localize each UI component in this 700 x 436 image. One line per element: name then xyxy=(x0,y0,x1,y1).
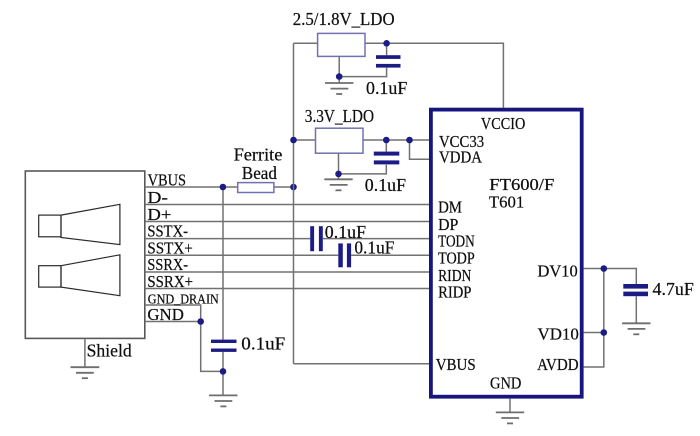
regulator U2 2.5/1.8V LDO body xyxy=(318,33,365,56)
wire rail to IC VBUS pin xyxy=(294,363,431,365)
IC U1 FT600/FT601 body xyxy=(431,110,582,397)
svg-text:GND: GND xyxy=(147,305,184,324)
wire D+ xyxy=(145,221,430,223)
junction VD10 xyxy=(601,329,608,336)
svg-text:AVDD: AVDD xyxy=(537,355,579,374)
ground LDO2 xyxy=(324,179,352,190)
wire C3 bottom xyxy=(635,296,637,323)
svg-text:VBUS: VBUS xyxy=(148,170,186,189)
junction VDDA branch xyxy=(406,137,413,144)
svg-text:2.5/1.8V_LDO: 2.5/1.8V_LDO xyxy=(293,9,395,29)
junction C1 top xyxy=(383,40,390,47)
regulator U3 3.3V LDO body xyxy=(316,128,364,153)
wire SSTX- right segment to TODN xyxy=(323,238,430,240)
svg-text:0.1uF: 0.1uF xyxy=(354,238,394,258)
wire SSRX- xyxy=(145,271,430,273)
wire D- xyxy=(145,204,430,206)
junction C2 top xyxy=(383,137,390,144)
wire VBUS rail vertical xyxy=(293,43,295,364)
junction LDO2 gnd xyxy=(335,171,342,178)
ground shield xyxy=(71,367,100,378)
svg-text:Bead: Bead xyxy=(242,163,277,183)
wire SSTX+ right segment to TODP xyxy=(351,254,429,256)
capacitor C6 0.1uF series TODP xyxy=(338,243,351,267)
svg-text:Ferrite: Ferrite xyxy=(234,145,283,165)
svg-text:VDDA: VDDA xyxy=(439,148,483,167)
svg-text:DV10: DV10 xyxy=(538,262,578,281)
junction GND/GND_DRAIN xyxy=(197,318,204,325)
wire LDO2 gnd pin xyxy=(338,153,340,179)
svg-text:FT600/F: FT600/F xyxy=(489,175,554,194)
wire VDDA jog xyxy=(410,140,431,159)
capacitor C2 0.1uF xyxy=(374,152,400,165)
capacitor C3 4.7uF xyxy=(623,284,648,296)
junction rail LDO2 xyxy=(290,137,297,144)
wire GND_DRAIN xyxy=(145,305,201,322)
junction DV10 xyxy=(601,265,608,272)
svg-text:GND: GND xyxy=(490,374,521,393)
svg-text:0.1uF: 0.1uF xyxy=(241,334,285,354)
svg-text:0.1uF: 0.1uF xyxy=(366,78,407,98)
svg-text:SSRX+: SSRX+ xyxy=(147,272,193,291)
connector J1 USB receptacle box xyxy=(25,171,145,338)
wire C2 stems xyxy=(385,140,387,152)
wire LDO1 row xyxy=(294,42,318,44)
wire GND xyxy=(145,322,223,372)
wire shield stem xyxy=(84,338,86,367)
wire IC GND stem xyxy=(509,399,511,413)
wire VD10 xyxy=(584,332,604,334)
wire VBUS cap drop xyxy=(222,187,224,340)
svg-text:4.7uF: 4.7uF xyxy=(653,279,694,299)
ferrite bead FB1 body xyxy=(238,183,274,193)
wire LDO2 row left xyxy=(294,139,316,141)
ground IC xyxy=(496,412,524,423)
wire VBUS xyxy=(145,186,294,188)
wire DV10 xyxy=(584,269,637,285)
svg-text:Shield: Shield xyxy=(87,340,132,360)
junction VBUS/bead left xyxy=(220,184,227,191)
wire AVDD xyxy=(584,333,604,368)
svg-text:VCCIO: VCCIO xyxy=(481,114,525,133)
USB plug symbol lower contact xyxy=(39,255,120,296)
wire DV10/VD10 vertical xyxy=(603,269,605,333)
capacitor C5 0.1uF series TODN xyxy=(310,226,323,251)
svg-text:0.1uF: 0.1uF xyxy=(365,175,406,195)
wire C1 stems xyxy=(386,43,388,55)
svg-text:VD10: VD10 xyxy=(538,325,579,344)
svg-text:3.3V_LDO: 3.3V_LDO xyxy=(305,106,374,126)
capacitor C4 0.1uF VBUS xyxy=(211,340,237,352)
svg-text:RIDP: RIDP xyxy=(438,283,471,302)
wire SSTX- left segment xyxy=(145,238,310,240)
USB plug symbol upper contact xyxy=(39,204,120,244)
ground C3 xyxy=(622,323,650,334)
junction LDO1 gnd xyxy=(336,73,343,80)
wire LDO2 out to VCC33 xyxy=(363,139,430,141)
ground LDO1 xyxy=(325,83,353,94)
svg-text:TODP: TODP xyxy=(438,249,475,268)
junction C4 bottom xyxy=(220,368,227,375)
wire C4 bottom xyxy=(222,352,224,396)
wire LDO1 gnd pin xyxy=(338,56,340,83)
ground C4 xyxy=(209,395,238,406)
svg-text:VBUS: VBUS xyxy=(436,355,476,374)
wire SSTX+ left segment xyxy=(145,254,338,256)
capacitor C1 0.1uF xyxy=(376,55,401,67)
junction bead right rail xyxy=(290,184,297,191)
svg-text:T601: T601 xyxy=(489,192,524,211)
wire SSRX+ xyxy=(145,288,430,290)
